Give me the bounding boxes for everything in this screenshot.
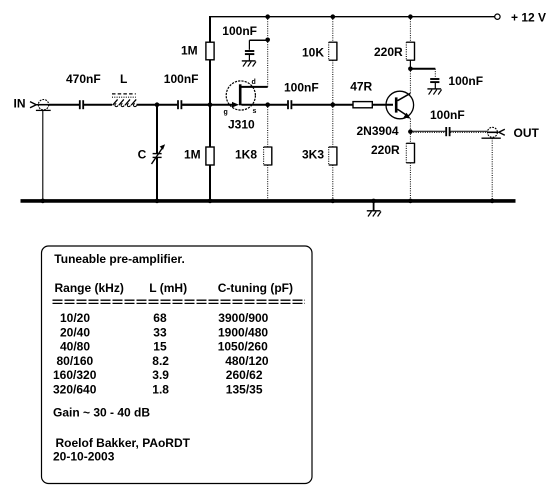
wire 3K3 to ground dotted: [332, 165, 334, 200]
svg-text:470nF: 470nF: [66, 72, 101, 86]
svg-text:OUT: OUT: [514, 126, 540, 140]
svg-text:IN: IN: [14, 97, 26, 111]
wire C5 to OUT: [450, 131, 487, 132]
svg-text:100nF: 100nF: [284, 81, 319, 95]
resistor R4 10K: [329, 42, 337, 61]
capacitor 100nF bypass: [245, 51, 254, 61]
junction OUT-ground: [490, 199, 495, 204]
wire 47R to base: [372, 104, 393, 106]
wire R1 to gate node: [209, 60, 211, 105]
svg-text:Gain ~ 30 - 40 dB: Gain ~ 30 - 40 dB: [53, 406, 150, 420]
wire C3 to base node: [292, 104, 353, 106]
wire source to C3: [268, 104, 288, 106]
svg-text:Roelof Bakker, PAoRDT: Roelof Bakker, PAoRDT: [56, 436, 191, 450]
svg-text:20-10-2003: 20-10-2003: [53, 449, 115, 463]
svg-text:100nF: 100nF: [222, 24, 257, 38]
svg-text:100nF: 100nF: [448, 74, 483, 88]
svg-text:L (mH): L (mH): [149, 281, 187, 295]
junction R2-ground: [208, 199, 213, 204]
svg-text:1K8: 1K8: [235, 148, 257, 162]
svg-text:33: 33: [153, 325, 167, 339]
terminal +12V: [495, 14, 500, 19]
svg-text:C-tuning (pF): C-tuning (pF): [218, 281, 293, 295]
junction node tank: [155, 102, 160, 107]
table row 5: [53, 368, 263, 382]
svg-text:480/120: 480/120: [225, 354, 269, 368]
label column headers: [55, 281, 294, 295]
wire out node to R8 dotted: [409, 132, 411, 144]
wire R2 to ground bus: [209, 165, 211, 200]
ground collector bypass: [427, 89, 441, 95]
ground main bus symbol: [367, 202, 381, 217]
wire R8 to ground dotted: [409, 163, 411, 200]
transistor Q1 2N3904: [386, 91, 414, 119]
junction drain bypass: [265, 38, 270, 43]
svg-text:Range (kHz): Range (kHz): [55, 281, 124, 295]
wire collector node to collector dotted: [409, 69, 411, 94]
inductor L: [112, 94, 137, 107]
svg-text:3900/900: 3900/900: [218, 311, 268, 325]
svg-text:135/35: 135/35: [226, 383, 263, 397]
wire C1 to L: [84, 104, 112, 106]
capacitor 100nF output: [446, 127, 449, 136]
wire R3 to ground bus dotted: [267, 165, 269, 200]
resistor R1 1M: [206, 42, 214, 60]
table header separator: [53, 300, 306, 303]
svg-text:8.2: 8.2: [152, 354, 169, 368]
junction base divider node: [331, 102, 336, 107]
resistor R3 1K8: [264, 147, 272, 166]
wire 10K to node dotted: [332, 60, 334, 104]
ground bypass cap: [242, 61, 256, 67]
wire source to R3 dotted: [267, 105, 269, 147]
wire L to C2: [137, 104, 178, 106]
junction collector node: [408, 67, 413, 72]
svg-text:47R: 47R: [350, 80, 372, 94]
svg-text:10K: 10K: [302, 46, 324, 60]
wire top supply rail: [209, 16, 495, 18]
wire bypass drop dotted: [434, 69, 436, 78]
svg-text:3K3: 3K3: [302, 148, 324, 162]
wire IN shield drop: [42, 110, 44, 200]
svg-text:3.9: 3.9: [152, 368, 169, 382]
wire C tank drop lower: [156, 158, 158, 200]
wire out node to C5: [410, 131, 445, 132]
junction 10K rail: [331, 14, 336, 19]
svg-text:100nF: 100nF: [430, 108, 465, 122]
svg-text:Tuneable pre-amplifier.: Tuneable pre-amplifier.: [54, 252, 184, 266]
junction R8-ground: [408, 199, 413, 204]
wire emitter to out node dotted: [409, 119, 411, 132]
svg-text:10/20: 10/20: [60, 311, 90, 325]
svg-text:1900/480: 1900/480: [218, 325, 268, 339]
svg-text:260/62: 260/62: [226, 368, 263, 382]
connector IN: [30, 100, 51, 111]
transistor U1 J310: [226, 81, 268, 110]
svg-text:320/640: 320/640: [53, 383, 97, 397]
svg-text:1M: 1M: [184, 148, 201, 162]
table row 4: [57, 354, 269, 368]
svg-text:100nF: 100nF: [164, 72, 199, 86]
junction source node: [265, 102, 270, 107]
table row 2: [60, 325, 268, 339]
svg-text:1050/260: 1050/260: [218, 340, 268, 354]
svg-text:d: d: [252, 79, 256, 86]
svg-text:20/40: 20/40: [60, 325, 90, 339]
ground bus wire: [21, 199, 516, 203]
junction 3K3-ground: [331, 199, 336, 204]
wire C2 to gate node: [182, 104, 210, 106]
wire gate node to R2: [209, 105, 211, 147]
wire C tank drop upper: [156, 105, 158, 153]
junction IN-ground: [41, 199, 46, 204]
svg-text:g: g: [224, 109, 228, 116]
capacitor 470nF: [80, 100, 83, 109]
svg-text:220R: 220R: [374, 45, 403, 59]
svg-text:+ 12 V: + 12 V: [511, 11, 546, 25]
svg-text:80/160: 80/160: [57, 354, 94, 368]
junction drain rail: [265, 14, 270, 19]
wire 1M divider upper drop: [209, 16, 211, 42]
resistor R6 47R: [353, 102, 372, 108]
junction C-ground: [155, 199, 160, 204]
junction emitter out node: [408, 129, 413, 134]
junction bus ground symbol: [371, 199, 376, 204]
junction 220R rail: [408, 14, 413, 19]
wire node to 3K3 dotted: [332, 105, 334, 147]
svg-text:s: s: [253, 108, 257, 115]
svg-text:220R: 220R: [371, 143, 400, 157]
wire 220R top drop dotted: [409, 17, 411, 43]
wire drain to rail dotted: [267, 17, 269, 87]
capacitor C variable: [152, 144, 166, 164]
svg-text:1.8: 1.8: [152, 383, 169, 397]
svg-text:C: C: [138, 148, 147, 162]
junction gate node: [208, 102, 213, 107]
svg-text:L: L: [120, 72, 127, 86]
resistor R7 220R: [406, 42, 414, 61]
table row 1: [60, 311, 269, 325]
resistor R8 220R: [406, 143, 414, 164]
wire 220R to collector node: [409, 60, 411, 69]
wire gate node to J310: [182, 104, 233, 106]
resistor R2 1M: [206, 147, 214, 165]
svg-text:2N3904: 2N3904: [357, 124, 399, 138]
capacitor 100nF series: [178, 100, 181, 109]
svg-text:160/320: 160/320: [53, 368, 97, 382]
svg-text:15: 15: [153, 340, 167, 354]
svg-text:1M: 1M: [181, 44, 198, 58]
capacitor 100nF collector bypass: [430, 79, 439, 89]
table row 3: [60, 340, 268, 354]
wire bypass branch: [249, 40, 267, 50]
wire 10K drop dotted: [332, 17, 334, 43]
wire collector bypass branch: [410, 68, 435, 70]
wire OUT shield drop dotted: [491, 138, 493, 199]
table row 6: [53, 383, 263, 397]
svg-text:J310: J310: [228, 118, 255, 132]
table info box: [42, 246, 313, 484]
svg-text:68: 68: [153, 311, 167, 325]
wire IN to C1: [49, 104, 79, 106]
connector OUT: [482, 127, 505, 138]
capacitor 100nF coupling: [288, 100, 291, 109]
resistor R5 3K3: [329, 147, 337, 166]
svg-text:40/80: 40/80: [60, 340, 90, 354]
